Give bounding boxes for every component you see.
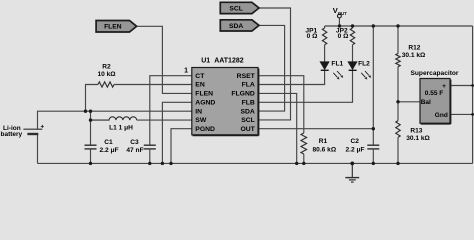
svg-text:C3: C3 — [130, 139, 139, 146]
svg-text:AGND: AGND — [195, 100, 215, 107]
svg-text:R13: R13 — [410, 127, 422, 134]
node: supercap plus junction — [471, 84, 474, 87]
svg-text:Bal: Bal — [421, 99, 431, 106]
svg-text:Supercapacitor: Supercapacitor — [411, 70, 459, 77]
wire: FLEN tag to FLEN pin — [137, 26, 192, 93]
node: R13 ground — [396, 162, 399, 165]
wire: Bal pin — [398, 101, 420, 103]
wire: AGND pin to ground rail — [162, 102, 191, 163]
wire: C1 / L1 branch column — [90, 111, 92, 145]
wire: supercap Gnd to right edge — [450, 113, 473, 115]
svg-text:SDA: SDA — [229, 23, 243, 30]
node: R2 on input rail — [84, 110, 87, 113]
node: ground symbol — [350, 162, 354, 166]
wire: L1 to SW pin — [137, 119, 192, 121]
wire: R12 to Bal node — [397, 67, 399, 121]
node: C3 ground — [148, 162, 151, 165]
battery BT1 — [23, 129, 42, 134]
svg-text:1: 1 — [184, 68, 188, 75]
svg-text:R12: R12 — [408, 45, 420, 52]
wire: C2 column — [372, 26, 374, 145]
node: supercap gnd junction — [471, 113, 474, 116]
node: R12 top — [396, 24, 399, 27]
svg-text:U1: U1 — [201, 57, 210, 64]
svg-text:L1 1 μH: L1 1 μH — [109, 125, 133, 132]
node: R1 ground — [302, 162, 305, 165]
wire: RSET pin to R1 — [258, 76, 304, 133]
net tag SCL — [220, 2, 259, 13]
wire: battery plus rail to IN pin — [38, 111, 192, 129]
pin labels right — [231, 73, 255, 133]
svg-text:FLEN: FLEN — [104, 24, 122, 31]
LED FL2 — [348, 62, 371, 80]
wire: PGND pin to ground rail — [171, 129, 192, 164]
svg-text:FL2: FL2 — [358, 61, 370, 68]
svg-text:+: + — [40, 124, 44, 131]
net tag FLEN — [96, 21, 137, 33]
node: OUT to C2 — [372, 127, 375, 130]
svg-text:FLEN: FLEN — [195, 91, 213, 98]
svg-text:Gnd: Gnd — [435, 112, 448, 119]
svg-text:OUT: OUT — [240, 126, 255, 133]
svg-text:0 Ω: 0 Ω — [338, 33, 349, 40]
capacitor C1 — [85, 145, 97, 149]
wire: right edge drop to ground rail — [472, 26, 474, 163]
svg-text:0.55 F: 0.55 F — [425, 90, 443, 97]
ground symbol — [345, 163, 359, 182]
op-amp U1 IC body — [192, 68, 259, 136]
svg-text:80.6 kΩ: 80.6 kΩ — [312, 147, 336, 154]
node: C2 ground — [372, 162, 375, 165]
wire: R13 to ground rail — [397, 137, 399, 163]
svg-text:battery: battery — [1, 131, 23, 138]
node: C2 top — [372, 24, 375, 27]
wire: JP2 to FL2 anode — [352, 45, 354, 62]
svg-text:FLB: FLB — [242, 100, 255, 107]
resistor R2 — [86, 85, 99, 112]
wire: JP1 to FL1 anode — [324, 45, 326, 62]
wire: FLGND pin to ground rail — [258, 93, 297, 163]
capacitor C3 — [144, 145, 156, 149]
resistor JP2 — [352, 26, 354, 28]
svg-text:RSET: RSET — [237, 73, 256, 80]
node: C1/L1 on input rail — [89, 110, 92, 113]
svg-text:SCL: SCL — [229, 5, 242, 12]
svg-text:10 kΩ: 10 kΩ — [97, 71, 116, 78]
svg-text:R2: R2 — [102, 64, 111, 71]
pin labels left — [195, 73, 215, 133]
resistor JP1 — [324, 26, 326, 28]
svg-text:CT: CT — [195, 73, 205, 80]
wire: FLA pin to FL1 cathode — [258, 70, 325, 84]
wire: CT pin to C3 column — [150, 76, 192, 146]
svg-text:SW: SW — [195, 117, 207, 124]
resistor R12 — [396, 54, 400, 67]
svg-text:0 Ω: 0 Ω — [307, 33, 318, 40]
svg-text:FL1: FL1 — [331, 61, 343, 68]
svg-text:47 nF: 47 nF — [126, 147, 143, 154]
svg-text:FLA: FLA — [242, 82, 255, 89]
svg-text:+: + — [442, 83, 446, 90]
svg-text:30.1 kΩ: 30.1 kΩ — [406, 135, 430, 142]
wire: bottom ground rail — [38, 162, 473, 164]
wire: C2 to ground rail — [372, 149, 374, 164]
wire: R1 to ground rail — [303, 154, 305, 163]
wire: R12/R13 column top — [397, 26, 399, 54]
wire: Vout terminal stem — [338, 18, 340, 26]
svg-text:FLGND: FLGND — [231, 91, 254, 98]
wire: supercap plus to right edge — [450, 85, 473, 87]
wire: SDA tag to SDA pin — [258, 25, 285, 111]
node: AGND ground — [161, 162, 164, 165]
svg-text:AAT1282: AAT1282 — [214, 57, 244, 64]
inductor L1 — [91, 117, 137, 120]
wire: OUT pin to C2 column — [258, 128, 373, 130]
svg-text:C1: C1 — [104, 139, 113, 146]
wire: C3 to ground rail — [149, 149, 151, 164]
node Vout terminal — [338, 14, 342, 18]
node: Bal junction — [396, 100, 399, 103]
svg-text:30.1 kΩ: 30.1 kΩ — [402, 52, 426, 59]
wire: C1 to ground rail — [90, 149, 92, 164]
node: C1 ground — [89, 162, 92, 165]
supercapacitor box — [420, 79, 451, 125]
svg-text:IN: IN — [195, 108, 202, 115]
node: JP2 top — [351, 24, 354, 27]
wire: SCL tag to SCL pin — [258, 8, 291, 120]
wire: battery minus to ground rail — [37, 134, 39, 163]
node: Vout stem — [338, 24, 341, 27]
resistor R13 — [396, 121, 400, 138]
wire: R2 to EN pin — [114, 84, 192, 86]
node: L1 tee — [89, 118, 92, 121]
svg-text:2.2 μF: 2.2 μF — [345, 147, 364, 154]
node: FLGND ground — [295, 162, 298, 165]
svg-text:SCL: SCL — [241, 117, 255, 124]
resistor R1 — [301, 133, 307, 154]
wire: FLB pin to FL2 cathode — [258, 70, 353, 102]
node: PGND ground — [169, 162, 172, 165]
svg-text:R1: R1 — [319, 138, 328, 145]
wire: Vout top rail — [325, 25, 473, 27]
svg-text:SDA: SDA — [240, 108, 254, 115]
svg-text:EN: EN — [195, 82, 205, 89]
capacitor C2 — [367, 145, 379, 149]
svg-text:2.2 μF: 2.2 μF — [99, 147, 118, 154]
svg-text:PGND: PGND — [195, 126, 215, 133]
svg-text:C2: C2 — [350, 138, 359, 145]
net tag SDA — [220, 20, 259, 31]
LED FL1 — [320, 62, 343, 80]
